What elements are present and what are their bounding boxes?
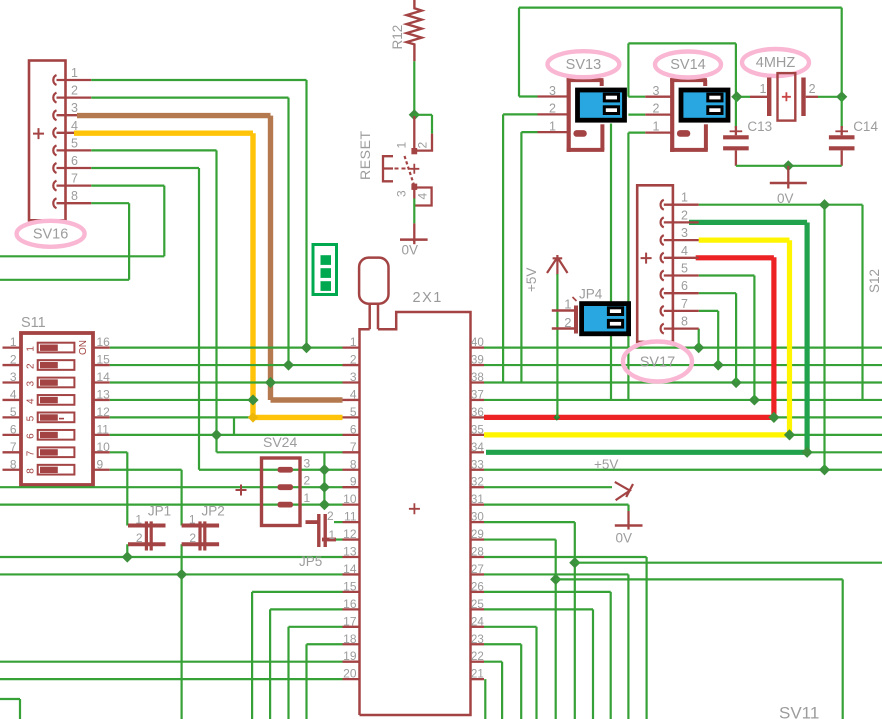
svg-text:35: 35 [471,423,484,436]
IC right pin 24 stub [471,626,485,628]
svg-text:7: 7 [10,440,17,454]
reset switch pin4 stub [414,188,431,206]
svg-text:30: 30 [471,511,484,524]
wire IC pin19 row from left edge [0,661,343,663]
svg-text:22: 22 [471,650,484,663]
crystal pin1 lead [750,96,767,98]
svg-text:C13: C13 [747,119,772,134]
wire pin30 vertical to bottom [574,522,576,719]
connector SV24 plus mark [236,485,247,496]
svg-text:2: 2 [564,315,571,330]
svg-text:2: 2 [416,142,430,149]
node junction crystal pin1 [731,91,742,102]
connector SV13 pin1 stub [538,131,569,133]
node junction on brown wire pin3 row [265,377,276,388]
wire IC pin8 row from SV16.6 [199,469,343,471]
svg-text:14: 14 [343,562,357,576]
DIP switch S11 left pin 1 stub [3,346,22,348]
connector SV14 pin1 blob [677,130,690,137]
wire crystal pin1 loop to SV14.3 [628,42,736,44]
svg-text:3: 3 [653,84,660,98]
node junction SV17.7 on pin39 row [713,359,724,370]
svg-text:R12: R12 [390,25,405,50]
wire IC pin29 row [484,538,556,540]
IC left pin 10 stub [343,503,360,505]
DIP switch S11 switch 5 lever [40,414,58,420]
IC right pin 25 stub [471,608,485,610]
DIP switch S11 switch 6 lever [40,432,58,438]
label ellipse 4MHZ [742,49,809,76]
IC left pin 4 stub [343,399,360,401]
wire IC pin10 row from left edge [0,504,343,506]
wire SV17.8 drop [698,329,700,348]
connector SV17 pin 7 contact [661,306,664,316]
DIP switch S11 right pin 9 stub [93,469,110,471]
svg-text:1: 1 [10,335,17,349]
node junction on red corner [768,412,779,423]
crystal Q1 left plate [767,78,771,117]
wire IC pin40 row to right edge [484,347,882,349]
connector SV16 pin 5 contact [53,145,56,155]
wire junction to reset pin2 [414,114,432,116]
svg-text:18: 18 [343,632,357,646]
connector SV16 pin 7 stub [57,184,92,186]
svg-text:2: 2 [26,363,37,369]
svg-text:16: 16 [97,335,111,349]
svg-text:7: 7 [71,172,78,186]
wire IC pin14 row from left edge [0,573,343,575]
node junction crystal pin2 [836,91,847,102]
IC left pin 8 stub [343,469,360,471]
capacitor C14 [841,126,843,135]
connector SV16 pin 8 stub [57,202,92,204]
DIP switch S11 right pin 15 stub [93,364,110,366]
wire SV16.2 vertical [91,96,288,98]
svg-text:ON: ON [78,340,89,355]
connector SV24 pin 1 blob [278,502,294,508]
IC right pin 21 stub [471,678,485,680]
wire IC pin3 row from S11.14 [110,381,343,383]
DIP switch S11 switch 3 lever [40,379,58,385]
solder jumper block [313,245,337,295]
wire SV16.1 to IC pin1 net [91,79,306,81]
svg-text:11: 11 [344,510,357,524]
svg-text:2: 2 [549,102,556,116]
svg-text:8: 8 [350,457,357,471]
IC left pin 9 stub [343,486,360,488]
wire gold SV16.4 to IC pin5 [74,130,253,135]
wire IC pin24 row [484,626,537,628]
svg-text:5: 5 [10,405,17,419]
wire IC pin27 row [484,573,628,575]
crystal Q1 body [778,73,796,121]
wire S11.10 stub row [110,451,128,453]
connector SV17 pin 3 contact [661,235,664,245]
connector SV13 pin1 blob [573,130,586,137]
jumper JP5 pin1 lead [322,538,336,542]
svg-text:SV17: SV17 [640,355,675,371]
node junction SV24.1 [319,499,330,510]
jumper JP2 plates [198,521,201,550]
label ellipse SV16 [17,221,85,247]
wire S11.9 vertical to JP2.1 [181,470,183,526]
ground 0V below capacitors [787,166,789,183]
wire thick yellow SV17.3 [699,238,790,243]
svg-text:7: 7 [26,450,37,456]
connector SV16 body [29,61,66,221]
svg-text:2: 2 [350,353,357,367]
node junction ground rail [783,160,794,171]
IC plus mark [409,503,420,514]
wire pin34 row thin to right edge [807,451,882,453]
node junction plus5V on red row [553,414,560,421]
svg-text:34: 34 [471,441,484,454]
node junction pin29 long line [550,574,561,585]
wire long line to far right corner [556,578,843,580]
connector SV17 plus mark [641,253,652,264]
svg-text:10: 10 [97,440,111,454]
wire IC pin37 row to right edge [484,399,882,401]
wire IC pin39 row to right edge [484,364,882,366]
IC right pin 32 stub [471,486,485,488]
IC right pin 39 stub [471,364,485,366]
connector SV24 pin 3 blob [278,467,294,473]
wire IC pin11 stub from JP5 [334,521,343,523]
connector SV16 pin 1 contact [53,75,56,85]
DIP switch S11 switch 6 body [38,430,75,440]
node junction SV17.6 on pin38 row [731,377,742,388]
wire IC pin23 row [484,643,521,645]
connector SV14 top bar [670,78,707,82]
wire thick green SV17.2 [689,220,807,225]
svg-text:39: 39 [471,354,484,367]
svg-text:SV24: SV24 [263,434,297,450]
DIP switch S11 switch 5 tick [59,418,64,420]
jumper JP4 blue box [582,304,629,334]
wire under SV13 down to pin37 row [610,124,612,401]
wire jog pin5 to pin6 row [233,417,235,434]
svg-text:38: 38 [471,371,484,384]
connector SV13 top bar [567,78,604,82]
node junction SV17.1 [819,199,830,210]
connector SV16 pin 3 stub [57,114,92,116]
svg-text:6: 6 [71,154,78,168]
wire IC pin9 row from left edge [0,486,343,488]
svg-text:6: 6 [10,422,17,436]
svg-text:1: 1 [681,191,688,205]
wire IC pin30 row [484,521,575,523]
label ellipse SV14 [655,52,721,78]
node junction SV17.5 on pin37 row [749,394,760,405]
crystal Q1 plus mark [782,92,791,101]
connector SV16 pin 1 stub [57,79,92,81]
svg-text:SV11: SV11 [779,704,819,719]
wire S11.10 vertical to JP1.1 [126,452,128,525]
IC left pin 18 stub [343,643,360,645]
wire SV17.5 drop [699,274,755,276]
DIP switch S11 switch 2 body [38,360,75,370]
connector SV14 pin3 stub [645,96,672,98]
wire long line to right edge [575,562,882,564]
IC right pin 31 stub [471,503,485,505]
IC left pin 15 stub [343,591,360,593]
svg-text:40: 40 [471,336,484,349]
svg-text:5: 5 [26,415,37,421]
svg-text:8: 8 [681,315,688,329]
IC left pin 20 stub [343,678,360,680]
node junction on thick green corner [802,447,813,458]
svg-text:15: 15 [343,579,357,593]
reset switch pin3 stub [413,189,415,199]
wire SV17.6 drop [699,292,736,294]
IC right pin 36 stub [471,416,485,418]
svg-text:28: 28 [471,546,484,559]
svg-text:11: 11 [97,422,110,436]
IC right pin 27 stub [471,573,485,575]
IC right pin 35 stub [471,434,485,436]
node junction SV24.3 [319,464,330,475]
svg-text:13: 13 [343,545,357,559]
wire JP2.2 vertical to bottom [181,544,183,719]
node junction S11.10 net on pin13 row [122,551,133,562]
connector SV16 plus mark [33,128,44,139]
wire reset to ground [413,199,415,224]
connector SV16 pin 2 contact [53,93,56,103]
svg-text:RESET: RESET [357,130,373,180]
connector SV13 blue jumper box [578,90,625,120]
connector SV17 pin 4 stub [664,257,699,259]
wire pin29 vertical to bottom [555,540,557,719]
jumper JP2 pin2 lead [182,542,220,546]
svg-text:0V: 0V [616,531,633,546]
node junction SV17.8 on pin40 row [693,342,704,353]
connector SV14 rail [670,78,674,152]
svg-text:3: 3 [681,226,688,240]
reset switch plus mark [409,164,419,174]
reset switch pin2 stub [414,134,432,151]
DIP switch S11 left pin 6 stub [3,434,22,436]
wire SV17.7 drop [699,310,719,312]
connector SV16 pin 5 stub [57,149,92,151]
connector SV24 body [262,458,301,526]
IC right pin 33 stub [471,469,485,471]
svg-text:4: 4 [10,387,17,401]
svg-text:21: 21 [471,668,484,681]
connector SV17 pin 6 stub [664,292,699,294]
wire IC pin31 row to ground [484,504,629,506]
svg-text:32: 32 [471,476,484,489]
svg-text:6: 6 [350,422,357,436]
DIP switch S11 right pin 11 stub [93,434,110,436]
wire SV14.2 stub wire [628,113,645,115]
capacitor C14 plus mark [835,130,848,132]
DIP switch S11 left pin 2 stub [3,364,22,366]
wire SV16.8 loop to left edge [91,202,129,204]
connector SV13 pin3 stub [538,95,569,97]
node junction SV17.1 on pin33 row [819,464,830,475]
svg-text:5: 5 [681,262,688,276]
svg-text:1: 1 [189,513,196,527]
connector SV16 pin 6 contact [53,163,56,173]
DIP switch S11 left pin 5 stub [3,416,22,418]
connector SV14 pin1 stub [645,131,672,133]
wire IC pin21 corner [484,679,486,719]
capacitor C13 plus mark [730,130,743,132]
wire SV13.3 stub wire [519,95,538,97]
wire IC pin25 row [484,608,593,610]
DIP switch S11 left pin 4 stub [3,399,22,401]
svg-text:12: 12 [343,527,357,541]
IC left pin 2 stub [343,364,360,366]
svg-text:3: 3 [71,101,78,115]
IC 2X1 outline [360,312,471,715]
wire SV13.2 left corner down to pin38 row [503,113,537,115]
IC left pin 7 stub [343,451,360,453]
svg-text:8: 8 [26,468,37,474]
node yellow junction at yellow corner [248,412,258,422]
svg-text:2: 2 [189,531,196,545]
DIP switch S11 left pin 8 stub [3,469,22,471]
svg-text:7: 7 [350,440,357,454]
wire pin36 row thin to right edge [774,416,882,418]
svg-text:8: 8 [71,189,78,203]
svg-text:9: 9 [97,457,104,471]
svg-text:SV14: SV14 [670,57,705,73]
IC right pin 34 stub [471,451,485,453]
node junction SV16.5 on pin6 row [211,429,222,440]
jumper JP1 pin1 lead [128,524,166,528]
connector SV17 pin 8 stub [664,327,699,329]
wire SV16.7 loop to left edge [91,185,164,187]
wire +5V vertical to red row [556,274,558,417]
DIP switch S11 switch 3 body [38,378,75,388]
node junction S11.9 net on pin14 row [176,569,187,580]
svg-text:31: 31 [471,493,484,506]
svg-text:2: 2 [809,82,816,96]
svg-text:15: 15 [97,353,111,367]
jumper JP2 pin1 lead [182,524,220,528]
svg-text:17: 17 [343,614,357,628]
wire crystal pin1 junction [736,96,750,98]
connector SV14 blue jumper box [681,90,728,120]
svg-text:12: 12 [97,405,111,419]
svg-text:2: 2 [681,208,688,222]
wire thick red SV17.4 [696,255,774,260]
connector SV13 rail [567,78,571,152]
DIP switch S11 body [21,333,93,485]
wire IC pin6 row from S11.11 [110,434,343,436]
svg-text:14: 14 [97,370,111,384]
IC left pin 6 stub [343,434,360,436]
connector SV17 pin 3 stub [664,239,699,241]
IC right pin 40 stub [471,346,485,348]
wire SV24 common vertical [323,452,325,504]
svg-text:JP4: JP4 [579,287,603,302]
svg-text:1: 1 [329,528,336,542]
wire IC pin20 row from left edge [0,678,343,680]
svg-text:19: 19 [343,649,357,663]
wire C14 top lead [841,97,843,128]
svg-text:1: 1 [653,120,660,134]
svg-text:JP1: JP1 [148,504,171,519]
wire IC pin16 row [270,608,342,610]
DIP switch S11 right pin 16 stub [93,346,110,348]
connector SV13 pin2 stub [538,113,569,115]
svg-text:4MHZ: 4MHZ [756,55,796,71]
svg-text:4: 4 [416,193,430,200]
wire pin35 row thin to right edge [790,434,882,436]
connector SV17 pin 1 stub [664,204,699,206]
node junction SV16.1 on pin1 row [301,342,312,353]
svg-text:+5V: +5V [524,268,539,292]
connector SV14 bottom bracket [670,148,708,152]
connector SV17 pin 1 contact [661,200,664,210]
reset switch dashed link [395,168,407,170]
DIP switch S11 switch 5 body [38,413,75,423]
connector SV13 bottom bracket [567,148,605,152]
crystal Q1 right plate [801,78,805,117]
svg-text:1: 1 [304,491,311,505]
svg-text:4: 4 [26,398,37,404]
svg-text:SV13: SV13 [566,57,601,73]
DIP switch S11 switch 8 lever [40,467,58,473]
reset switch actuator bracket [383,156,393,181]
wire bottom left corner stub [0,698,20,700]
IC left pin 12 stub [343,538,360,540]
svg-text:2: 2 [304,474,311,488]
DIP switch S11 switch 1 lever [40,345,58,351]
wire top bus SV13.3 to crystal pin2 [519,6,842,8]
wire IC pin22 row [484,661,502,663]
DIP switch S11 switch 1 body [38,343,75,353]
DIP switch S11 right pin 14 stub [93,381,110,383]
ground 0V below reset [413,223,415,242]
DIP switch S11 switch 8 body [38,465,75,475]
svg-text:SV16: SV16 [33,227,68,243]
IC right pin 37 stub [471,399,485,401]
node junction R12/reset [409,109,420,120]
wire IC pin12 stub from JP5 [334,538,343,540]
connector SV17 pin 5 contact [661,271,664,281]
connector SV16 pin 6 stub [57,167,92,169]
svg-text:4: 4 [350,387,357,401]
wire IC pin18 row [307,643,343,645]
connector SV14 pin2 stub [645,113,672,115]
wire SV14.1 corner down to pin37 row [628,132,645,134]
svg-text:6: 6 [681,279,688,293]
jumper JP4 pin stubs [552,309,578,311]
wire IC pin13 row from left edge [0,556,343,558]
IC left pin 14 stub [343,573,360,575]
IC left pin 11 stub [343,521,360,523]
jumper JP1 plates [145,521,148,550]
IC right pin 38 stub [471,381,485,383]
reset switch pivot top [411,148,417,154]
connector SV17 pin 7 stub [664,310,699,312]
wire IC pin17 row [289,626,343,628]
transducer stem [368,304,371,330]
jumper JP5 plates [317,514,320,547]
svg-text:4: 4 [681,244,688,258]
svg-text:26: 26 [471,580,484,593]
svg-text:1: 1 [350,335,357,349]
connector SV17 pin 5 stub [664,274,699,276]
node junction SV16.2 on pin2 row [283,359,294,370]
wire S11.9 row segment [110,469,182,471]
DIP switch S11 left pin 3 stub [3,381,22,383]
DIP switch S11 right pin 10 stub [93,451,110,453]
DIP switch S11 right pin 12 stub [93,416,110,418]
